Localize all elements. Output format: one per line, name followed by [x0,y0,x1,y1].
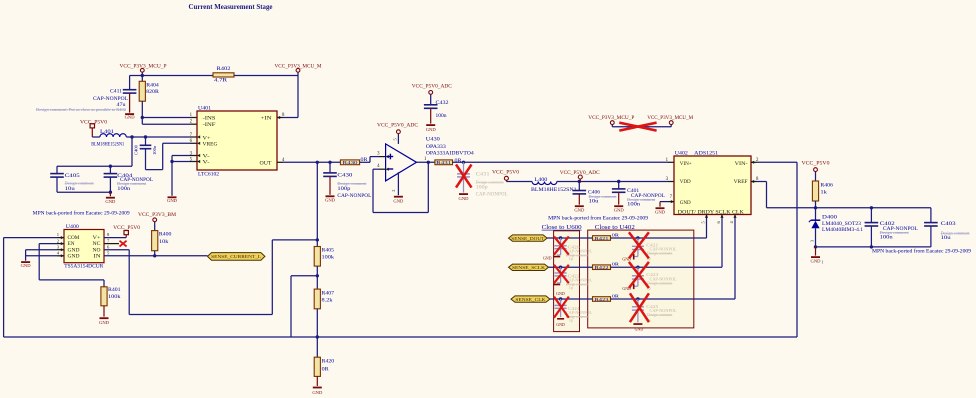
svg-text:Design comment: Design comment [476,180,505,185]
svg-text:D400: D400 [822,214,837,220]
pin number 7 (U402) [670,195,673,200]
svg-text:Design comment: Design comment [65,181,95,186]
svg-text:C401: C401 [627,188,639,194]
capacitor C423 (not fitted) [632,267,677,290]
svg-text:Design comment: Design comment [941,231,971,236]
wire divider vertical from OUT rail [316,162,319,246]
svg-text:0R: 0R [322,367,330,373]
ground R420 [312,387,323,395]
op-amp U430 OPA333 [386,137,475,181]
svg-text:LM4040_SOT23: LM4040_SOT23 [822,221,861,227]
svg-text:R431: R431 [436,160,452,165]
svg-text:10u: 10u [941,236,952,241]
svg-text:V-: V- [203,160,210,166]
ground C401 [614,205,625,212]
svg-text:R404: R404 [146,83,159,89]
wire VREG net (U401 pin 6 to C400) [146,142,201,170]
resistor R407 [314,289,334,309]
svg-text:-INF: -INF [203,122,216,128]
pin number 6 (U401) [190,139,193,144]
power port VCC_P5V0 (reference) [802,161,830,181]
ground C420 [543,256,560,261]
power port VCC_P3V3_MCU_P [120,63,167,75]
svg-text:VIN-: VIN- [735,161,748,167]
no-fit X on MCU ports wire [619,123,656,131]
capacitor C401 [612,182,665,208]
svg-text:VCC_P5V0: VCC_P5V0 [802,161,830,167]
svg-text:0R: 0R [455,159,463,164]
svg-text:R405: R405 [322,247,335,253]
wire reference bottom rail [814,245,931,255]
svg-text:VCC_P3V3_MCU_P: VCC_P3V3_MCU_P [588,115,634,121]
capacitor C405 [50,166,94,192]
svg-text:100n: 100n [880,235,894,240]
svg-text:LTC6102: LTC6102 [198,172,219,178]
svg-text:2: 2 [57,238,60,243]
ground C406 [574,205,585,212]
wire C405/C404 bottom rail [57,191,112,197]
capacitor C404 [104,166,153,192]
no-fit X on C424 [554,297,569,318]
ground C424 [556,318,565,327]
pin number 1 (U401) [190,113,193,118]
svg-text:10k: 10k [159,239,169,245]
wire VCC_P3V3_MCU_P rail [130,74,213,77]
wire R430 to U430 pin 3 [360,155,389,162]
wire SENSE_CLK row [550,297,593,300]
svg-text:OUT: OUT [260,160,273,166]
capacitor C431 (not fitted) [457,162,508,197]
wire R422 to U402 SCLK [611,218,723,269]
ground V- (U401) [167,196,178,203]
capacitor C424 (not fitted) [555,299,593,323]
svg-text:MPN back-ported from Eacatec 2: MPN back-ported from Eacatec 29-09-2009 [872,248,971,255]
svg-text:100n: 100n [627,203,641,208]
pin number 6 (U402) rotated [716,221,721,224]
ground C404/C405 [105,197,116,204]
svg-text:0R: 0R [612,293,620,298]
pin number 4 (U430) [377,164,380,169]
no-fit X on C425 [630,293,649,322]
pin number 2 (U401) [190,120,193,125]
wire U430 pin 4 feedback [373,162,428,212]
svg-text:IN: IN [94,254,102,259]
svg-text:R420: R420 [322,358,335,364]
wire C405/C404 top rail [57,137,132,168]
wire U400 V+ (pin 8) to VCC_P5V0 [104,237,126,239]
capacitor C403 [924,208,970,247]
power port VCC_P3V3_BM [138,212,176,231]
svg-text:MPN back-ported from Eacatec 2: MPN back-ported from Eacatec 29-09-2009 [548,215,648,222]
svg-text:R421: R421 [595,236,609,241]
ground C423 [622,284,634,292]
resistor R421 [593,232,621,240]
svg-text:GND: GND [556,291,565,296]
svg-text:R401: R401 [108,287,121,293]
capacitor C411 [93,76,136,113]
svg-text:SENSE_CLK: SENSE_CLK [515,297,546,302]
svg-text:GND: GND [325,197,336,202]
svg-text:GND: GND [393,199,404,204]
svg-text:C403: C403 [941,221,956,227]
box Close to U600 [554,231,580,332]
svg-text:VDD: VDD [680,179,691,185]
op-amp U401 LTC6102 [197,105,277,177]
note Close to U402 [595,224,635,231]
pin number 5 (U401) [190,157,193,162]
svg-text:GND: GND [614,208,625,213]
svg-text:Design comment: Design comment [627,197,656,202]
zener diode D400 LM4040 [809,208,863,247]
pin numbers U400 right 8,7,6,5 [107,232,110,255]
svg-text:GND: GND [543,256,552,261]
pin stubs U402 bottom (DOUT,SCLK,CLK) [705,215,737,219]
svg-text:VIN+: VIN+ [680,161,692,167]
power port VCC_P3V3_MCU_M (crossed) [647,115,693,127]
svg-text:GND: GND [426,127,437,132]
svg-text:GND: GND [574,208,585,213]
svg-text:L401: L401 [100,129,114,135]
svg-text:C430: C430 [337,173,352,179]
resistor R422 [593,262,621,270]
svg-text:3: 3 [377,152,380,157]
wire +IN net to U401 pin 8 [277,76,298,120]
ground C411 [125,113,136,119]
svg-text:NC: NC [93,242,101,247]
wire U400 GND pins 3,4 [26,248,64,261]
wire U402 GND pin 7 [660,200,674,207]
svg-text:10u: 10u [589,200,600,205]
svg-text:10u: 10u [65,187,76,192]
svg-text:VCC_P5V0_ADC: VCC_P5V0_ADC [412,83,452,89]
wire U400 COM (pin 1) to bottom loop [4,236,64,337]
svg-text:Design comment: Design comment [647,252,673,256]
pin number 8 (U401) [282,113,285,118]
wire U430 pin 2 to ground [397,172,399,195]
wire R431 to U402 VIN+ [453,161,678,164]
capacitor C420 (not fitted) [555,238,593,261]
svg-text:MPN back-ported from Eacatec 2: MPN back-ported from Eacatec 29-09-2009 [33,209,130,216]
wire U400 NO (pin 6) to divider [104,240,317,315]
svg-text:5: 5 [393,138,398,141]
wire VDD rail to U402 pin 3 [557,180,678,183]
svg-text:820R: 820R [146,89,159,95]
svg-text:NO: NO [93,248,102,253]
wire R421 to U402 DOUT [611,218,707,240]
svg-text:GND: GND [68,254,81,259]
svg-text:100n: 100n [117,187,131,192]
note MPN back-ported (middle) [548,215,648,222]
power port VCC_P5V0 (L400) [492,170,532,182]
title: Current Measurement Stage [189,2,273,11]
svg-text:6: 6 [716,221,721,224]
wire reference top rail [814,206,931,209]
wire bottom sense loop [4,336,797,338]
svg-text:VCC_P5V0_ADC: VCC_P5V0_ADC [377,122,418,128]
svg-text:TS5A3154DCUR: TS5A3154DCUR [64,263,103,269]
svg-text:Design comment: Design comment [647,313,673,317]
capacitor C400 [133,137,156,170]
pin number 5 (U402) rotated [701,221,706,224]
no-connect X on U400 pin 7 (NC) [104,241,127,247]
power port VCC_P5V0 (U400) [113,225,140,238]
svg-text:VCC_P3V3_BM: VCC_P3V3_BM [138,212,176,218]
svg-text:GND: GND [312,390,323,395]
svg-text:R406: R406 [820,183,833,189]
wire SENSE_DOUT row [547,236,592,239]
svg-text:VREG: VREG [203,142,218,148]
ground U402 [655,207,666,214]
svg-text:LM4040BIM3-4.1: LM4040BIM3-4.1 [822,227,863,233]
resistor R420 [314,357,334,386]
wire R407 bottom to loop [316,309,319,357]
svg-text:6: 6 [107,244,110,249]
svg-text:VCC_P5V0: VCC_P5V0 [492,170,519,176]
box Close to U402 [588,230,694,328]
svg-text:C405: C405 [65,173,80,179]
svg-text:GND: GND [811,258,822,263]
svg-text:R402: R402 [217,66,231,72]
pin number 1 (U402) [666,158,669,163]
no-fit X on C420 [554,236,569,254]
net label SENSE_CLK [511,296,550,302]
svg-text:BLM18HE152SN1: BLM18HE152SN1 [531,187,577,193]
capacitor C425 (not fitted) [632,299,677,322]
svg-text:VCC_P3V3_MCU_M: VCC_P3V3_MCU_M [275,63,322,69]
power port VCC_P5V0_ADC (rail) [560,170,600,182]
svg-text:2: 2 [391,190,396,192]
svg-text:C431: C431 [476,172,491,177]
svg-text:GND: GND [99,320,110,325]
wire between crossed MCU ports [612,126,671,128]
resistor R400 [152,231,172,256]
svg-text:OPA333: OPA333 [426,144,446,150]
pin number 2 (U430) rotated [391,190,396,192]
svg-text:V+: V+ [203,135,211,141]
resistor R401 [101,287,121,317]
svg-text:R400: R400 [159,232,172,238]
net label SENSE_CURRENT_L [208,253,265,261]
svg-text:OPA333AIDBVTO4: OPA333AIDBVTO4 [426,151,474,157]
power port VCC_P3V3_MCU_P (crossed) [588,115,634,127]
svg-text:EN: EN [68,242,76,247]
svg-text:100n: 100n [152,145,157,155]
no-fit X on C421 [629,232,649,258]
ground C431 [459,193,470,201]
pin number 1 (U430) [424,157,427,162]
svg-text:4: 4 [729,221,734,224]
no-fit X on C422 [554,265,569,283]
svg-text:4.7R: 4.7R [214,77,228,83]
capacitor C422 (not fitted) [555,267,593,290]
svg-text:Current Measurement Stage: Current Measurement Stage [189,2,273,11]
wire R404 to U401 pins 1,2 [141,116,201,126]
svg-text:7: 7 [670,195,673,200]
wire SENSE_SCLK row [549,266,593,269]
svg-text:4: 4 [377,164,380,169]
ground C421 [622,254,634,262]
svg-text:COM: COM [68,236,81,241]
capacitor C402 [865,208,918,247]
pin number 4 (U401) [282,158,285,163]
inductor L400 [531,177,577,193]
capacitor C432 with VCC_P5V0_ADC [412,83,452,123]
note Close to U600 [542,224,582,231]
ground C425 [633,323,643,331]
svg-text:U430: U430 [426,137,440,143]
svg-text:100n: 100n [436,114,448,119]
svg-text:V+: V+ [93,236,101,241]
svg-text:Design comment: Design comment [880,230,910,235]
pin number 8 (U402) [756,177,759,182]
pin number 5 (U430) rotated [393,138,398,141]
svg-text:VCC_P3V3_MCU_M: VCC_P3V3_MCU_M [647,115,693,121]
note MPN back-ported (left) [33,209,130,216]
wire R423 to U402 CLK [611,218,736,301]
svg-text:100k: 100k [108,294,121,300]
svg-text:GND: GND [459,196,470,201]
svg-text:Close to U600: Close to U600 [542,224,582,231]
pin number 2 (U402) [756,158,759,163]
wire U430 output [417,161,435,164]
ground D400 [811,256,824,264]
svg-text:U401: U401 [198,105,211,111]
wire V- net (U401 pins 3,5) [170,154,200,196]
pin number 3 (U430) [377,152,380,157]
no-fit X on C423 [629,262,649,288]
svg-text:GND: GND [21,263,32,268]
svg-text:Design comment: Design comment [337,181,367,186]
svg-text:GND: GND [680,200,691,206]
svg-text:CAP-NONPOL: CAP-NONPOL [337,194,371,199]
svg-text:R422: R422 [595,265,609,270]
svg-text:1: 1 [424,157,427,162]
wire U402 VIN- to loop [751,161,797,337]
wire R402 to VCC_P3V3_MCU_M [234,75,298,77]
svg-text:5: 5 [701,221,706,224]
svg-text:SENSE_DOUT: SENSE_DOUT [511,236,544,241]
svg-text:1: 1 [57,232,60,237]
svg-text:0R: 0R [612,232,620,237]
svg-text:R430: R430 [343,160,359,165]
svg-text:1: 1 [822,261,824,265]
svg-text:GND: GND [635,326,644,331]
pin number 7 (U401) [190,133,193,138]
svg-text:4: 4 [57,250,60,255]
resistor R406 [812,181,833,208]
svg-text:8: 8 [107,232,110,237]
svg-text:VCC_P5V0: VCC_P5V0 [80,119,107,125]
inductor L401 [91,129,126,148]
design comment: put as close as possible to R402 [36,107,126,112]
adc U402 ADS1251 [674,151,751,216]
svg-text:Design comment: Design comment [117,181,147,186]
svg-text:SENSE_CURRENT_L: SENSE_CURRENT_L [211,254,261,259]
resistor R402 [213,66,234,83]
net label SENSE_SCLK [509,264,549,270]
svg-text:5: 5 [107,250,110,255]
svg-text:R423: R423 [595,297,610,302]
svg-text:Design comment: Put as close a: Design comment: Put as close as possible… [36,107,126,112]
svg-text:Design comment: Design comment [589,194,618,199]
ground C432 [426,124,437,132]
capacitor C406 [573,182,618,205]
pin number 3 (U401) [190,151,193,156]
svg-text:R407: R407 [322,291,335,297]
svg-text:7: 7 [107,238,110,243]
svg-text:U402: U402 [675,151,688,157]
resistor R405 [314,247,334,267]
ground U400 pins 3,4 [21,261,32,268]
svg-text:GND: GND [68,248,81,253]
wire V+ rail to U401 pin 7 [126,135,200,138]
svg-text:ADS1251: ADS1251 [694,151,718,157]
svg-text:100k: 100k [322,254,335,260]
analog switch U400 TS5A3154DCUR [64,224,104,269]
ground C422 [553,284,565,297]
ground U430 [393,196,404,204]
note MPN back-ported (right) [872,248,971,255]
capacitor C421 (not fitted) [632,238,677,261]
resistor R430 [340,158,368,165]
power port VCC_P5V0_ADC (U430 pin 5) [377,122,418,143]
resistor R423 [593,293,621,301]
svg-text:GND: GND [105,199,116,204]
svg-text:C411: C411 [110,89,122,95]
wire U401 OUT rail [277,161,340,164]
resistor R431 [435,159,463,165]
svg-text:8.2k: 8.2k [322,298,333,304]
wire R405/R407 midpoint to bottom loop [291,266,319,337]
svg-text:3: 3 [810,240,815,242]
svg-text:C432: C432 [436,100,449,106]
pin numbers U400 left 1,2,3,4 [57,232,60,255]
svg-text:Design comment: Design comment [647,281,673,285]
svg-text:BLM18HE152SN1: BLM18HE152SN1 [91,142,124,148]
power port VCC_P5V0 (L401) [80,119,107,137]
resistor R404 [139,76,159,125]
pin number 3 (U402) [666,177,669,182]
net label SENSE_DOUT [509,235,548,241]
svg-text:3: 3 [57,244,60,249]
svg-text:CAP-NONPOL: CAP-NONPOL [476,193,508,198]
svg-text:0R: 0R [612,262,620,267]
svg-text:100p: 100p [337,187,351,192]
wire U400 IN (pin 5) to SENSE_CURRENT_L [104,254,208,257]
capacitor C430 [323,162,371,199]
svg-text:VCC_P3V3_MCU_P: VCC_P3V3_MCU_P [120,63,167,69]
svg-text:1k: 1k [820,190,827,196]
svg-text:C400: C400 [133,144,138,155]
svg-text:VREF: VREF [734,179,748,185]
svg-text:GND: GND [167,198,178,203]
svg-text:U400: U400 [66,224,79,230]
no-fit X on C431 [456,165,472,188]
wire U402 VREF to reference [751,180,816,208]
svg-text:L400: L400 [534,177,547,183]
ground R401 [99,317,110,325]
pin number 4 (U402) rotated [729,221,734,224]
svg-text:DOUT/ DRDY SCLK CLK: DOUT/ DRDY SCLK CLK [678,210,744,216]
ground C430 [325,195,336,202]
svg-text:SENSE_SCLK: SENSE_SCLK [512,265,546,270]
wire U400 EN (pin 2) to R401 [39,242,104,287]
svg-text:GND: GND [125,115,136,120]
svg-text:+IN: +IN [261,116,272,122]
svg-text:GND: GND [655,210,666,215]
pin number 3 (D400) rotated [810,240,815,242]
svg-text:-INS: -INS [203,116,216,122]
